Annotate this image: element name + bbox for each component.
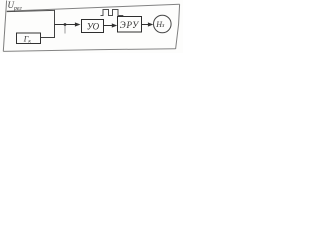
- wire Uрег feed: [7, 10, 55, 11]
- arrowhead into УО: [75, 22, 81, 26]
- wire УО to ЭРУ: [104, 25, 114, 27]
- arrowhead into ЭРУ: [112, 23, 117, 27]
- svg-text:Нз: Нз: [155, 20, 165, 29]
- wire riser to top line: [54, 10, 56, 25]
- svg-text:ЭРУ: ЭРУ: [120, 20, 139, 30]
- frame right border: [176, 4, 180, 49]
- frame left border: [3, 1, 6, 52]
- wire stub below junction: [64, 25, 66, 34]
- svg-text:Гк: Гк: [23, 35, 32, 45]
- wire into УО: [55, 24, 78, 26]
- transducer circle Нз: [154, 15, 172, 33]
- junction dot: [64, 23, 67, 26]
- wire ЭРУ to circle: [142, 24, 150, 26]
- frame bottom border: [3, 49, 175, 52]
- svg-text:Uрег: Uрег: [8, 0, 23, 12]
- block Гк: [17, 33, 41, 44]
- svg-text:УО: УО: [87, 22, 100, 32]
- waveform square pulses: [101, 10, 124, 16]
- frame top border: [7, 4, 180, 11]
- block ЭРУ: [118, 17, 142, 33]
- wire Гк output to riser: [41, 25, 55, 38]
- block УО: [82, 20, 104, 33]
- arrowhead into circle: [148, 22, 153, 26]
